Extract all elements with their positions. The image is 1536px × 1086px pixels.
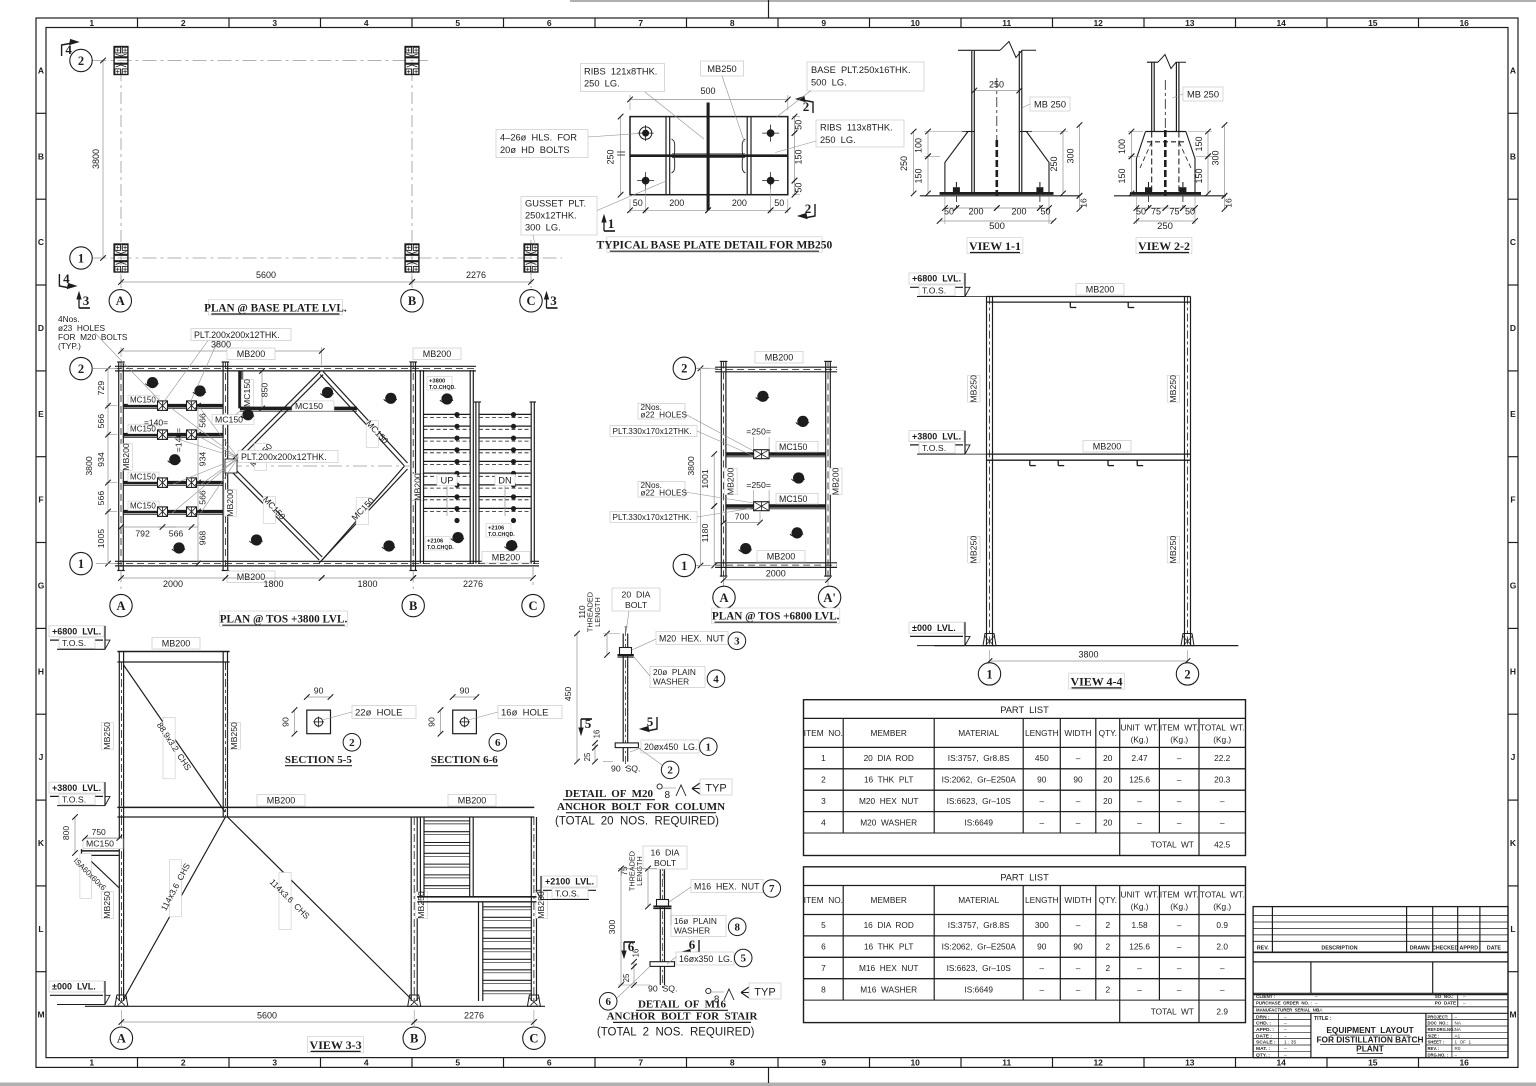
view 2-2: base plate and ground	[1130, 192, 1201, 195]
view 4-4: grid bubbles 1 2	[978, 663, 1000, 685]
view 4-4: dim 3800 bottom	[989, 650, 991, 664]
plan 6800: dims 1001 1180	[713, 454, 715, 506]
svg-text:2: 2	[1105, 984, 1110, 994]
svg-text:10: 10	[910, 1058, 920, 1068]
svg-text:2: 2	[1105, 920, 1110, 930]
svg-text:5: 5	[455, 18, 460, 28]
view 3-3: stair upper flight	[419, 817, 421, 897]
grid bubble C	[520, 290, 542, 312]
m20 detail: hex nut	[620, 648, 632, 656]
svg-text:90: 90	[314, 686, 324, 696]
svg-text:B: B	[410, 1032, 418, 1046]
svg-text:250: 250	[989, 80, 1004, 90]
svg-text:16ø HOLE: 16ø HOLE	[501, 708, 549, 719]
svg-text:PLAN @ BASE PLATE LVL.: PLAN @ BASE PLATE LVL.	[204, 303, 347, 315]
m16 detail: label 16 PLAIN WASHER	[671, 916, 726, 937]
plan 6800: MB200 rotated labels	[725, 468, 737, 495]
plan 3800: vertical beam at 2000	[222, 362, 224, 571]
svg-text:(Kg.): (Kg.)	[1170, 734, 1188, 744]
svg-text:4: 4	[821, 817, 826, 827]
svg-text:WASHER: WASHER	[674, 925, 710, 935]
svg-text:2: 2	[349, 737, 355, 749]
svg-text:–: –	[1039, 796, 1044, 806]
svg-text:90: 90	[281, 717, 291, 727]
plan 3800: dim 850	[261, 371, 263, 408]
label RIBS 121x8THK 250 LG	[581, 64, 665, 92]
svg-text:MB250: MB250	[1168, 536, 1178, 564]
svg-text:1: 1	[986, 667, 992, 681]
svg-text:MC150: MC150	[779, 442, 807, 452]
svg-text:4: 4	[713, 673, 719, 685]
svg-text:42.5: 42.5	[1214, 840, 1231, 850]
svg-text:566: 566	[169, 529, 184, 539]
svg-text:2000: 2000	[766, 569, 786, 579]
plan 3800: level label +3800 TOC	[427, 377, 452, 391]
svg-text:A: A	[117, 1032, 126, 1046]
svg-text:TOTAL WT: TOTAL WT	[1151, 840, 1194, 850]
svg-text:GUSSET PLT.: GUSSET PLT.	[525, 199, 586, 209]
svg-text:8: 8	[730, 18, 735, 28]
svg-text:200: 200	[732, 198, 747, 208]
svg-text:–: –	[1177, 817, 1182, 827]
view 2-2: gusset front face	[1146, 131, 1186, 133]
svg-text:150: 150	[1194, 136, 1204, 151]
plan 6800: dim 3800 left	[697, 367, 718, 369]
svg-text:125.6: 125.6	[1129, 775, 1150, 785]
svg-text:+2100 LVL.: +2100 LVL.	[545, 877, 594, 887]
svg-text:5600: 5600	[257, 1010, 277, 1020]
svg-text:1: 1	[89, 1058, 94, 1068]
part list table frame	[804, 867, 1246, 1023]
svg-text:6: 6	[547, 1058, 552, 1068]
plan 6800: MC150 labels	[776, 442, 818, 453]
svg-text:MB250: MB250	[102, 722, 112, 750]
svg-text:EQUIPMENT LAYOUT: EQUIPMENT LAYOUT	[1326, 1025, 1413, 1035]
svg-text:+6800 LVL.: +6800 LVL.	[912, 274, 961, 284]
svg-text:–: –	[1220, 963, 1225, 973]
svg-text:3: 3	[550, 293, 557, 308]
svg-text:M20 WASHER: M20 WASHER	[860, 817, 917, 827]
plan 3800: level label +2106 right	[486, 524, 511, 538]
view 4-4: mid beam clips	[1029, 460, 1031, 465]
svg-text:14: 14	[1276, 1058, 1286, 1068]
svg-text:20ø PLAIN: 20ø PLAIN	[653, 667, 696, 677]
svg-text:M: M	[37, 1010, 44, 1020]
m20 detail: item circle 2 leader	[661, 761, 679, 779]
svg-text:22ø HOLE: 22ø HOLE	[355, 708, 403, 719]
svg-text:3800: 3800	[686, 456, 696, 475]
border column ticks top and bottom	[137, 18, 139, 28]
base plate detail: plate outline	[630, 117, 788, 195]
svg-text:ANCHOR BOLT FOR COLUMN: ANCHOR BOLT FOR COLUMN	[557, 801, 725, 813]
svg-text:–: –	[1463, 1001, 1466, 1006]
svg-text:–: –	[1177, 920, 1182, 930]
grid bubble B	[401, 290, 423, 312]
base plate detail: rib lines left	[665, 117, 667, 195]
svg-text:792: 792	[135, 529, 150, 539]
svg-text:25: 25	[583, 752, 592, 761]
m20 detail: dim 16 and 25	[594, 743, 596, 748]
svg-text:B: B	[409, 599, 417, 613]
svg-text:1001: 1001	[700, 469, 710, 488]
svg-text:5: 5	[821, 920, 826, 930]
plan 3800: label PLT.200x200x12THK center	[238, 451, 338, 463]
svg-text:934: 934	[96, 452, 106, 467]
svg-text:PLT.330x170x12THK.: PLT.330x170x12THK.	[613, 427, 692, 436]
view 3-3: grid bubbles A B C	[110, 1027, 132, 1049]
svg-text:2.9: 2.9	[1216, 1007, 1228, 1017]
title block revision table	[1253, 915, 1508, 917]
svg-text:=140=: =140=	[144, 418, 168, 428]
fold mark top	[768, 0, 770, 18]
svg-text:16ø PLAIN: 16ø PLAIN	[674, 916, 717, 926]
svg-text:–: –	[1039, 817, 1044, 827]
svg-text:ø22 HOLES: ø22 HOLES	[641, 411, 688, 420]
svg-text:250x12THK.: 250x12THK.	[525, 211, 577, 221]
svg-text:7: 7	[638, 1058, 643, 1068]
svg-text:300 LG.: 300 LG.	[525, 223, 561, 233]
svg-text:L: L	[38, 924, 43, 934]
svg-text:WIDTH: WIDTH	[1064, 895, 1091, 905]
svg-text:B: B	[38, 151, 44, 161]
view 3-3: MB250 labels tower	[101, 723, 113, 750]
svg-text:SHEET :: SHEET :	[1428, 1040, 1445, 1045]
svg-text:+3800 LVL.: +3800 LVL.	[52, 783, 101, 793]
svg-text:TITLE :: TITLE :	[1314, 1016, 1332, 1022]
plan 3800: MC150 rotated label at 850 bay	[241, 380, 253, 407]
svg-text:SIZE :: SIZE :	[1428, 1033, 1440, 1038]
view 3-3: column A lower	[118, 817, 120, 1001]
view 3-3: brace joint to B-base	[228, 817, 412, 999]
plan 6800: blobs	[757, 391, 768, 402]
view 3-3: tower right column MB250	[222, 652, 224, 818]
view 4-4: left column MB250	[986, 297, 988, 646]
svg-text:20: 20	[1103, 796, 1113, 806]
svg-text:8: 8	[821, 984, 826, 994]
svg-text:D: D	[38, 323, 44, 333]
plan 3800: diamond brace B-R	[319, 469, 407, 563]
svg-text:MC150: MC150	[779, 494, 807, 504]
plan 3800: dims 792 566	[121, 526, 176, 528]
svg-text:–: –	[1076, 984, 1081, 994]
svg-text:–: –	[1137, 963, 1142, 973]
plan 3800: stair treads right flight	[479, 413, 531, 415]
svg-text:–: –	[1137, 984, 1142, 994]
base plate detail: right dimensions 50 150 50	[792, 116, 800, 118]
plan 3800: grid bubbles	[70, 357, 92, 379]
svg-text:SO NO.:: SO NO.:	[1435, 994, 1454, 999]
svg-text:WIDTH: WIDTH	[1064, 728, 1091, 738]
svg-text:T.O.S.: T.O.S.	[62, 638, 86, 648]
view 1-1: bottom dims 50 200 200 50 / 500	[944, 196, 946, 224]
svg-text:MANUFACTURER SERIAL NO.: MANUFACTURER SERIAL NO.	[1256, 1007, 1320, 1012]
svg-text:0.9: 0.9	[1216, 920, 1228, 930]
svg-text:A': A'	[823, 591, 836, 605]
svg-text:934: 934	[198, 452, 208, 467]
svg-text:–: –	[1076, 796, 1081, 806]
svg-text:B: B	[1510, 151, 1516, 161]
base plate detail: dimension 250 left	[620, 117, 622, 195]
svg-text:566: 566	[96, 414, 106, 429]
svg-text:11: 11	[1002, 1058, 1011, 1068]
svg-text:75: 75	[1169, 207, 1179, 217]
svg-text:2: 2	[1184, 667, 1190, 681]
svg-text:M16 HEX NUT: M16 HEX NUT	[859, 963, 918, 973]
svg-text:6: 6	[821, 942, 826, 952]
svg-text:IS:6623, Gr–10S: IS:6623, Gr–10S	[947, 796, 1012, 806]
svg-text:(Kg.): (Kg.)	[1213, 902, 1231, 912]
svg-text:MB200: MB200	[225, 489, 235, 517]
svg-text:20: 20	[1103, 817, 1113, 827]
view 2-2: label MB 250	[1183, 87, 1223, 101]
view 2-2: column flanges	[1151, 62, 1153, 132]
svg-text:NA: NA	[1316, 1007, 1323, 1012]
svg-text:2: 2	[681, 362, 687, 376]
svg-text:=250=: =250=	[746, 480, 771, 490]
grid bubble A	[109, 290, 131, 312]
svg-text:C: C	[529, 1032, 538, 1046]
view 3-3: brace A-base to joint	[124, 817, 226, 999]
view 4-4: MB200 label mid	[1083, 441, 1131, 453]
svg-text:LENGTH: LENGTH	[593, 597, 602, 627]
svg-text:7: 7	[638, 18, 643, 28]
svg-text:MB250: MB250	[969, 536, 979, 564]
svg-text:G: G	[1510, 581, 1517, 591]
svg-text:G: G	[38, 581, 45, 591]
svg-text:1: 1	[706, 741, 712, 753]
svg-text:M20 HEX. NUT: M20 HEX. NUT	[659, 634, 725, 644]
svg-text:16 THK PLT: 16 THK PLT	[864, 942, 914, 952]
svg-text:50: 50	[1040, 207, 1050, 217]
svg-text:90: 90	[1037, 775, 1047, 785]
svg-text:700: 700	[735, 512, 750, 522]
plan 6800: left beam MB200 vertical	[720, 361, 722, 576]
svg-text:2.47: 2.47	[1132, 753, 1149, 763]
m16 detail: washer	[653, 906, 671, 908]
title block outer frame	[1253, 907, 1508, 1058]
svg-text:8: 8	[730, 1058, 735, 1068]
plan 3800: blobs	[147, 377, 158, 388]
dimension 3800 vertical	[102, 61, 104, 259]
svg-text:90: 90	[1073, 942, 1083, 952]
m20 detail: label M20 HEX NUT	[656, 632, 728, 645]
plan 3800: stair left flight stringers	[419, 370, 421, 564]
svg-text:50: 50	[774, 198, 784, 208]
label BASE PLT 250x16THK 500 LG	[807, 62, 924, 91]
svg-text:850: 850	[260, 383, 270, 398]
plan 3800: MB200 boxed label stair bottom	[482, 552, 530, 564]
plan 6800: labels 2Nos 22 HOLES / PLT.330x170 (upper)	[638, 404, 685, 420]
svg-text:NA: NA	[1455, 1027, 1462, 1032]
svg-text:MATERIAL: MATERIAL	[958, 728, 999, 738]
svg-text:1 OF 1: 1 OF 1	[1455, 1040, 1472, 1045]
view 4-4: base pads	[983, 634, 996, 646]
view 1-1: column centerline	[996, 78, 998, 140]
base plate detail: bolt hole top-left (with circle)	[639, 127, 651, 139]
view 1-1: anchor bolts	[953, 187, 960, 193]
section 6-6: item circle 6	[489, 734, 507, 752]
m16 detail: label 16 DIA BOLT	[643, 846, 687, 869]
svg-text:–: –	[1076, 920, 1081, 930]
m16 detail: bolt rod	[659, 869, 661, 985]
view 3-3: platform beam at +2100	[417, 896, 536, 898]
svg-text:MB200: MB200	[1093, 442, 1122, 452]
plan 3800: MB200 boxed label top right	[413, 348, 461, 360]
svg-text:2276: 2276	[466, 270, 486, 280]
svg-text:PLANT: PLANT	[1356, 1043, 1384, 1053]
svg-text:22.2: 22.2	[1214, 753, 1231, 763]
svg-text:13: 13	[1185, 1058, 1195, 1068]
svg-text:ITEM NO.: ITEM NO.	[804, 895, 843, 905]
svg-text:(TOTAL 2 NOS. REQUIRED): (TOTAL 2 NOS. REQUIRED)	[597, 1027, 755, 1039]
plan 3800: diamond brace L-T	[228, 372, 320, 465]
svg-text:PURCHASE ORDER NO. :: PURCHASE ORDER NO. :	[1256, 1001, 1312, 1006]
svg-text:MB250: MB250	[969, 375, 979, 403]
section 5-5: plate square	[307, 710, 331, 734]
svg-text:2: 2	[821, 775, 826, 785]
svg-text:CHECKED: CHECKED	[1432, 946, 1458, 952]
svg-text:C: C	[1510, 237, 1516, 247]
base plate at A-1	[114, 244, 128, 272]
view 1-1: break line top	[958, 49, 1000, 51]
view 2-2: break top	[1147, 61, 1158, 63]
svg-text:–: –	[1177, 775, 1182, 785]
section 5-5: dims 90 90	[307, 696, 331, 698]
svg-text:DRG.NO. :: DRG.NO. :	[1428, 1052, 1448, 1057]
svg-text:MATERIAL: MATERIAL	[958, 895, 999, 905]
svg-text:IS:6649: IS:6649	[964, 984, 993, 994]
svg-text:–: –	[1315, 1001, 1318, 1006]
svg-text:ITEM WT.: ITEM WT.	[1160, 890, 1199, 900]
section 6-6: label 16 HOLE	[498, 706, 562, 719]
plan 3800: MB200 boxed label bottom	[227, 571, 275, 583]
m20 detail: anchor plate 90 sq	[615, 743, 638, 748]
plan 6800: grid bubbles	[673, 357, 695, 379]
svg-text:50: 50	[1185, 207, 1195, 217]
view 3-3: mid beam MB200 at +3800	[117, 806, 534, 808]
svg-text:M20 HEX NUT: M20 HEX NUT	[859, 796, 918, 806]
plan 3800: left dims 729 566 934 566 1005	[106, 368, 117, 370]
svg-text:250: 250	[1049, 156, 1059, 171]
plan base plate: grid line 2 dashed	[93, 60, 429, 62]
base plate detail: bottom dimensions 50 200 200 50	[629, 199, 631, 213]
svg-text:100: 100	[914, 138, 924, 153]
plan 3800: diamond grid dash line	[228, 465, 412, 467]
svg-text:MB250: MB250	[1168, 375, 1178, 403]
svg-text:PO DATE :: PO DATE :	[1435, 1001, 1460, 1006]
section 6-6: plate square	[453, 710, 477, 734]
plan 6800: grid dash lines	[696, 367, 719, 369]
svg-text:2: 2	[1105, 963, 1110, 973]
svg-text:±000 LVL.: ±000 LVL.	[912, 623, 956, 633]
title view 2-2	[1136, 238, 1192, 254]
svg-text:VIEW 1-1: VIEW 1-1	[969, 239, 1021, 253]
svg-text:MC150: MC150	[295, 401, 323, 411]
svg-text:–: –	[1455, 1014, 1458, 1019]
svg-text:MB200: MB200	[767, 552, 796, 562]
plan 6800: splice plates	[754, 450, 770, 459]
svg-text:APPRD: APPRD	[1460, 946, 1479, 952]
base plate at A-2	[114, 47, 128, 75]
title block right mini table	[1425, 1013, 1427, 1057]
m16 detail: anchor plate 90 sq	[650, 962, 675, 967]
base plate detail: flange profile curves	[672, 139, 675, 157]
svg-text:6: 6	[547, 18, 552, 28]
svg-text:IS:3757, Gr8.8S: IS:3757, Gr8.8S	[948, 753, 1010, 763]
base plate at B-2	[405, 47, 419, 75]
svg-text:150: 150	[1117, 168, 1127, 183]
svg-text:PLT.200x200x12THK.: PLT.200x200x12THK.	[194, 330, 280, 340]
svg-text:1800: 1800	[263, 579, 283, 589]
plan 3800: MB200 rotated label on A beam	[120, 444, 132, 471]
svg-text:2.0: 2.0	[1216, 942, 1228, 952]
svg-text:90: 90	[460, 686, 470, 696]
svg-text:150: 150	[914, 168, 924, 183]
svg-text:A: A	[116, 599, 125, 613]
plan 3800: bottom beam MB200	[115, 560, 539, 562]
svg-text:MC150: MC150	[130, 502, 156, 511]
svg-text:TOTAL WT.: TOTAL WT.	[1200, 722, 1245, 732]
svg-text:DOC NO.:: DOC NO.:	[1428, 1021, 1448, 1026]
svg-text:566: 566	[198, 490, 208, 505]
svg-text:TYP: TYP	[754, 987, 775, 999]
svg-text:–: –	[1177, 963, 1182, 973]
plan 3800: column line B vertical beam MB200	[410, 362, 412, 571]
svg-text:7: 7	[769, 883, 775, 895]
svg-text:250 LG.: 250 LG.	[584, 79, 620, 89]
svg-text:16 DIA: 16 DIA	[651, 848, 680, 858]
svg-text:IS:6649: IS:6649	[964, 817, 993, 827]
svg-text:5: 5	[740, 953, 746, 965]
svg-text:16 THK PLT: 16 THK PLT	[864, 775, 914, 785]
svg-text:MB200: MB200	[726, 467, 736, 495]
svg-text:3800: 3800	[84, 456, 94, 475]
title block lower left mini table	[1310, 1013, 1312, 1057]
svg-text:1005: 1005	[96, 529, 106, 548]
svg-text:2276: 2276	[464, 1010, 484, 1020]
svg-text:–: –	[1463, 994, 1466, 999]
m16 detail: item circle 6 leader	[599, 993, 617, 1011]
plan 3800: diamond brace T-R	[323, 372, 407, 464]
svg-text:50: 50	[1136, 207, 1146, 217]
view 4-4: MB250 rotated labels	[968, 376, 980, 403]
svg-text:A: A	[1510, 65, 1516, 75]
view 4-4: level marker +6800	[909, 273, 964, 284]
svg-text:MB200: MB200	[121, 443, 131, 471]
svg-text:QTY.: QTY.	[1099, 728, 1117, 738]
view 3-3: base pads	[115, 995, 128, 1006]
title view 3-3	[308, 1037, 364, 1053]
svg-text:16: 16	[1079, 198, 1089, 208]
view 1-1: gusset left	[962, 131, 974, 133]
svg-text:750: 750	[92, 827, 106, 837]
svg-text:E: E	[38, 409, 44, 419]
svg-text:REF.DRG.NO.:: REF.DRG.NO.:	[1428, 1027, 1456, 1032]
svg-text:100: 100	[1117, 139, 1127, 154]
svg-text:IS:6623, Gr–10S: IS:6623, Gr–10S	[947, 963, 1012, 973]
view 1-1: column flanges	[971, 51, 973, 193]
plan 3800: top beam MB200	[115, 365, 476, 367]
svg-text:90: 90	[1037, 942, 1047, 952]
title view 1-1	[967, 238, 1023, 254]
svg-text:90: 90	[427, 717, 437, 727]
svg-text:968: 968	[198, 531, 208, 546]
svg-text:3: 3	[272, 18, 277, 28]
svg-text:150: 150	[1194, 168, 1204, 183]
view 4-4: top beam MB200	[987, 296, 1191, 298]
svg-text:250 LG.: 250 LG.	[820, 135, 856, 145]
section 6-6: dims 90 90	[453, 696, 477, 698]
